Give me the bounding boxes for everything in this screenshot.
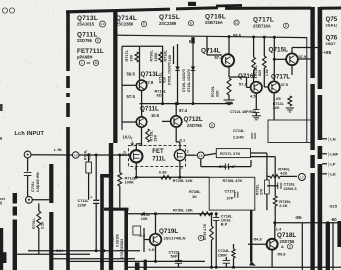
junction gate at C711L — [95, 154, 98, 157]
junction node row at D714L — [192, 102, 195, 105]
svg-text:10.5: 10.5 — [151, 113, 160, 118]
resistor R740L zigzag — [270, 175, 280, 179]
left edge tick mark — [0, 104, 3, 111]
junction bottom right — [232, 266, 235, 269]
svg-text:L0: L0 — [74, 153, 78, 157]
power bus bar A segment — [310, 173, 314, 270]
wire Q718L vertical — [274, 223, 276, 239]
frame left border lower — [66, 127, 70, 270]
junction +85 on bus B — [318, 46, 321, 49]
wire source row — [136, 176, 209, 178]
page corner black blob — [0, 252, 7, 263]
wire diode D716L column — [177, 44, 179, 104]
bottom dark streak — [144, 260, 147, 270]
frame left border dash 2 — [66, 93, 70, 97]
svg-text:D705L 1S2473: D705L 1S2473 — [168, 62, 172, 85]
junction G14 row at heavy bar — [103, 249, 106, 252]
svg-text:0.36: 0.36 — [159, 169, 168, 174]
wire bottom node row — [128, 213, 212, 215]
wire T2 to shield bar — [32, 199, 49, 201]
svg-text:L: L — [81, 61, 83, 65]
wire C711L lower — [95, 203, 97, 250]
capacitor C714L symbol — [252, 133, 255, 139]
svg-text:7: 7 — [131, 137, 133, 141]
diode D714L symbol — [191, 67, 196, 71]
svg-text:R730L 10K: R730L 10K — [173, 208, 193, 213]
wire lower row 3 — [53, 258, 135, 260]
wire right box left edge — [301, 223, 303, 270]
svg-text:2SA1015: 2SA1015 — [77, 22, 95, 27]
wire T1 down — [27, 158, 29, 172]
junction rail at R722L — [252, 36, 255, 39]
fet FET711L left half — [130, 150, 142, 162]
svg-text:C714L: C714L — [233, 129, 245, 133]
junction gate at R713L — [118, 154, 121, 157]
stub LN — [322, 138, 327, 140]
junction crossing bar C — [326, 221, 329, 224]
junction Q715L base at Q717L column — [273, 58, 276, 61]
resistor R726L body — [265, 180, 270, 194]
svg-text:100K: 100K — [125, 180, 134, 185]
svg-text:27P: 27P — [227, 196, 234, 201]
svg-text:Q719L: Q719L — [159, 228, 178, 235]
wire R727L node to output — [251, 156, 275, 158]
junction G14 at C711L — [95, 249, 98, 252]
output stage box — [268, 120, 311, 143]
resistor R717L zigzag — [135, 52, 139, 62]
power bus bar A segment — [310, 84, 314, 150]
junction C716L top — [215, 212, 218, 215]
svg-text:G14: G14 — [56, 248, 64, 253]
wire Q719L base — [144, 239, 150, 241]
ground symbol below R712L — [286, 108, 294, 112]
svg-text:10K: 10K — [141, 217, 148, 221]
svg-text:Lch INPUT: Lch INPUT — [15, 131, 45, 137]
svg-text:37.5: 37.5 — [281, 83, 288, 87]
power bus bar B segment — [318, 146, 323, 159]
svg-text:R736L: R736L — [150, 49, 154, 61]
wire Q712L collector up — [175, 104, 177, 116]
svg-text:6Ω: 6Ω — [157, 93, 162, 98]
junction blob on box top at D714L — [191, 37, 194, 43]
svg-text:220/6.3: 220/6.3 — [284, 186, 298, 191]
stub LD — [322, 173, 327, 175]
power bus bar B segment — [318, 164, 323, 270]
wire Q715L down — [291, 65, 293, 75]
svg-text:D716L 1S2473: D716L 1S2473 — [182, 69, 186, 92]
input terminal jack T2 — [26, 196, 33, 203]
wire mid horizontal node row — [140, 103, 234, 105]
left page remnant circles — [2, 8, 14, 13]
svg-text:2SB716A: 2SB716A — [253, 23, 271, 28]
transistor Q719L — [150, 234, 162, 246]
wire FET right drain up — [179, 142, 181, 150]
transistor Q713L — [136, 80, 146, 90]
transistor Q716L — [251, 82, 262, 93]
resistor R713L zigzag — [119, 155, 121, 173]
wire C726L row — [267, 185, 278, 187]
svg-text:711L: 711L — [152, 157, 166, 163]
svg-text:56P: 56P — [171, 254, 178, 259]
wire C712L to ground — [255, 113, 257, 116]
left shield bar segment — [13, 193, 17, 204]
wire C723L stubs — [178, 253, 180, 260]
svg-text:Q715L: Q715L — [269, 47, 289, 54]
resistor R739L zigzag — [273, 196, 277, 206]
wire C716L column — [215, 214, 217, 218]
junction source row at FET right — [178, 176, 181, 179]
wire Q719L emitter down — [155, 245, 157, 261]
junction rail at R723L — [263, 36, 266, 39]
power bus bar B segment — [318, 7, 323, 89]
svg-text:820: 820 — [258, 70, 262, 76]
wire Q717L emitter — [273, 93, 275, 109]
left edge bar — [0, 228, 3, 270]
capacitor C701L symbol — [24, 173, 32, 176]
right edge bus bar — [337, 221, 341, 247]
capacitor C711L symbol — [93, 200, 99, 203]
svg-text:59.5: 59.5 — [127, 72, 136, 77]
svg-text:57.9: 57.9 — [145, 80, 154, 85]
svg-text:C701L: C701L — [31, 180, 35, 192]
wire R736L column — [162, 46, 164, 103]
heavy bus branch horizontal — [104, 208, 129, 211]
svg-text:-59.8: -59.8 — [277, 252, 287, 257]
svg-text:G15: G15 — [330, 204, 338, 209]
tick mark on rail — [189, 40, 191, 43]
feedback box — [209, 177, 255, 210]
wire T1 to frame — [31, 154, 72, 156]
svg-text:-85-: -85- — [295, 215, 303, 220]
svg-text:or: or — [87, 61, 91, 65]
svg-text:R727L 27K: R727L 27K — [220, 151, 240, 156]
wire inner box top rail — [122, 45, 163, 47]
wire Q715L collector to bus — [298, 58, 313, 60]
resistor R720L zigzag — [227, 78, 231, 95]
svg-text:150P: 150P — [218, 252, 227, 257]
svg-text:0.68/100 WM: 0.68/100 WM — [36, 172, 40, 192]
wire Q713L collector column — [139, 46, 141, 80]
junction node row at R736L — [161, 102, 164, 105]
wire gate line from input — [79, 154, 130, 156]
svg-text:R738L 47K: R738L 47K — [223, 178, 243, 183]
mid shield bar segment — [49, 164, 53, 203]
svg-text:2.2K: 2.2K — [41, 221, 45, 229]
svg-text:C712L 48P/500: C712L 48P/500 — [230, 110, 256, 114]
wire C701L down to T2 — [27, 176, 29, 197]
svg-text:Q713L: Q713L — [141, 71, 160, 78]
svg-text:57.5: 57.5 — [127, 94, 136, 99]
wire emitter join — [273, 109, 275, 120]
svg-text:2.2/40: 2.2/40 — [233, 136, 244, 140]
svg-text:2SD7: 2SD7 — [326, 41, 337, 46]
junction Q712L collector — [175, 102, 178, 105]
bottom heavy bar — [135, 262, 140, 270]
frame left border dash 3 — [66, 103, 70, 117]
heavy bus vertical mid — [109, 143, 113, 270]
junction crossing bus A — [311, 221, 314, 224]
FET envelope dashed box — [129, 146, 186, 167]
svg-text:L6: L6 — [199, 154, 203, 158]
wire diode D714L column — [192, 44, 194, 104]
svg-text:2SC2389: 2SC2389 — [116, 22, 134, 27]
wire lower row 2 — [13, 253, 90, 255]
svg-text:22K: 22K — [153, 134, 157, 141]
frame top border overlap dash — [216, 4, 242, 7]
inner box right edge — [306, 37, 308, 143]
wire Q712L emitter down — [175, 127, 177, 142]
connector L2 — [298, 174, 305, 181]
svg-text:GR: GR — [101, 22, 105, 26]
inner box top edge — [117, 35, 307, 37]
svg-text:Q718L: Q718L — [277, 232, 296, 239]
fet FET711L right half — [174, 150, 185, 161]
svg-text:1K: 1K — [192, 194, 197, 199]
svg-text:22K: 22K — [215, 90, 219, 97]
svg-text:220P: 220P — [78, 203, 87, 207]
wire emitter ground row — [66, 260, 205, 262]
svg-text:2SA1(: 2SA1( — [326, 23, 338, 28]
capacitor C726L symbol — [278, 183, 281, 189]
capacitor C710L symbol — [225, 163, 228, 169]
wire R726L column — [266, 157, 268, 180]
wire Q717L collector up — [273, 37, 275, 81]
junction Q715L wire at bus A — [311, 58, 314, 61]
svg-text:B.P: B.P — [221, 221, 228, 226]
junction Q715L emitter bus — [311, 58, 314, 61]
power bus bar C — [326, 222, 330, 270]
svg-text:57.4: 57.4 — [179, 108, 188, 113]
parts list suffix L or M — [79, 60, 84, 65]
stub LP — [322, 163, 327, 165]
transistor Q712L — [171, 116, 182, 127]
junction source row at FET left — [135, 176, 138, 179]
wire Q719L collector up — [155, 214, 157, 234]
svg-text:-0.5: -0.5 — [139, 233, 147, 238]
svg-text:510: 510 — [162, 77, 166, 83]
stub LNF — [322, 153, 327, 155]
wire Q714L collector up — [228, 37, 230, 55]
wire Q711L emitter down — [141, 127, 143, 146]
arrow FET drain annotation — [131, 141, 134, 145]
svg-text:-1.4: -1.4 — [275, 227, 283, 232]
junction gate wire at R714L — [87, 154, 90, 157]
svg-text:g: g — [0, 136, 2, 140]
resistor R701L zigzag — [38, 203, 40, 211]
frame top border left segment — [66, 8, 170, 14]
wire ground row G14 — [28, 250, 140, 252]
svg-text:·+85: ·+85 — [322, 50, 332, 55]
wire Q718L collector trace — [250, 210, 252, 262]
frame top border right segment — [225, 7, 311, 10]
svg-text:R717L: R717L — [125, 49, 129, 61]
arrow at trace end — [249, 261, 256, 266]
svg-text:42K: 42K — [280, 171, 287, 176]
svg-text:D701 RD5823: D701 RD5823 — [120, 239, 124, 259]
resistor R730L zigzag — [200, 212, 211, 216]
small box R732 — [133, 226, 141, 235]
wire FET right source to L6 — [186, 154, 197, 156]
transistor Q711L — [136, 117, 146, 127]
svg-text:100K: 100K — [154, 52, 158, 61]
frame left border dash 1 — [66, 76, 70, 88]
svg-text:R733 4.7K: R733 4.7K — [203, 223, 207, 240]
capacitor C724L symbol — [223, 260, 230, 263]
svg-text:Q711L: Q711L — [140, 106, 159, 113]
junction crossing bus B — [318, 221, 321, 224]
wire FET left drain up — [135, 144, 137, 150]
wire C724L stubs — [225, 257, 227, 261]
svg-text:2.2K: 2.2K — [279, 203, 287, 208]
wire Q718L base — [248, 243, 267, 245]
wire C710L row — [200, 159, 202, 167]
resistor R715L zigzag — [146, 129, 150, 142]
wire FET drain to Q711 emitter — [136, 143, 141, 145]
wire FET sources down — [135, 163, 137, 178]
resistor R729L zigzag — [161, 175, 171, 179]
wire bottom row — [128, 266, 341, 268]
junction node row at D716L — [176, 102, 179, 105]
junction rail at Q714L — [228, 35, 231, 38]
svg-text:-54.9: -54.9 — [253, 236, 263, 241]
resistor R722L column wire — [253, 37, 255, 57]
wire R714L column — [88, 155, 90, 162]
wire Q712L base stub — [162, 120, 171, 122]
svg-text:1.50: 1.50 — [265, 69, 269, 76]
svg-text:FET: FET — [152, 149, 164, 155]
svg-text:μPA68H: μPA68H — [77, 54, 92, 59]
transistor Q714L — [222, 54, 234, 66]
power bus bar B segment — [318, 95, 323, 140]
junction Q718L top — [273, 221, 276, 224]
svg-text:4.5: 4.5 — [250, 94, 256, 99]
resistor R735L small zigzag bottom right — [232, 249, 235, 258]
resistor R733 zigzag — [210, 226, 214, 240]
junction bottom row at R733 — [210, 212, 213, 215]
svg-text:L2: L2 — [300, 175, 304, 179]
junction emitter row at Q719L — [154, 260, 157, 263]
svg-text:A: A — [281, 244, 284, 249]
ground symbol below C712L — [252, 116, 261, 120]
wire Q711L base stub — [122, 121, 136, 123]
scan speckle texture — [2, 1, 291, 251]
svg-text:59.5: 59.5 — [233, 33, 242, 38]
svg-text:100: 100 — [168, 55, 172, 61]
wire R720L to ground — [228, 95, 230, 100]
svg-text:100: 100 — [130, 55, 134, 61]
svg-text:3: 3 — [181, 166, 183, 170]
svg-text:27K: 27K — [260, 188, 264, 195]
connector L0 on frame — [72, 152, 79, 159]
svg-text:L IN: L IN — [54, 147, 62, 152]
junction bottom at R733 — [210, 266, 213, 269]
heavy bus vertical top — [113, 11, 117, 143]
transistor Q718L — [267, 239, 278, 250]
wire right box right edge — [332, 223, 334, 270]
junction rail at Q717L collector — [273, 36, 276, 39]
wire Q714L emitter down — [228, 66, 230, 77]
wire right crossing row — [275, 222, 341, 224]
capacitor C712L symbol — [253, 110, 259, 113]
junction bottom row at C716L — [215, 266, 218, 269]
power bus bar A segment — [310, 7, 314, 78]
junction bottom row at R731 — [143, 212, 146, 215]
svg-text:2SB716A: 2SB716A — [205, 20, 223, 25]
svg-text:R729L 12K: R729L 12K — [173, 178, 193, 183]
heavy bus jog — [100, 174, 113, 178]
input terminal jack T1 — [24, 151, 31, 158]
resistor R714L box — [86, 162, 92, 173]
capacitor C727L symbol — [235, 192, 238, 198]
wire R718L column — [173, 46, 175, 64]
mid shield bar segment — [49, 212, 53, 270]
wire R727L to output column — [251, 152, 267, 154]
wire inner box left edge — [121, 46, 123, 130]
capacitor C716L symbol — [213, 217, 219, 220]
resistor R723L column — [263, 37, 265, 56]
transistor Q715L — [286, 53, 298, 65]
resistor R736L zigzag — [159, 52, 163, 62]
capacitor C723L symbol — [175, 260, 182, 263]
scan dash above border gap — [188, 2, 196, 6]
adjacent page frame top border — [320, 7, 341, 10]
junction +85 on bus A — [311, 46, 314, 49]
junction bottom row — [154, 212, 157, 215]
svg-text:M: M — [95, 61, 98, 65]
wire Q715L base — [274, 58, 286, 60]
svg-text:57.9: 57.9 — [299, 55, 306, 59]
resistor R712L zigzag — [288, 96, 292, 106]
diode D716L symbol — [175, 67, 180, 71]
svg-text:g: g — [0, 201, 2, 205]
wire Q714L base wire — [206, 36, 208, 55]
wire output column down — [274, 157, 276, 196]
wire Q713L emitter down — [141, 91, 143, 117]
svg-text:2: 2 — [187, 149, 189, 153]
wire Q716L base to Q714L emitter — [247, 86, 251, 88]
resistor R727L 27K box — [216, 149, 250, 158]
wire collector rail drop from frame — [116, 12, 118, 47]
svg-text:+: + — [90, 196, 92, 200]
svg-text:C701L: C701L — [111, 236, 115, 247]
heavy bus vertical lower — [100, 176, 104, 270]
power bus bar A segment — [310, 155, 314, 168]
wire L6 to R727L box — [204, 153, 216, 155]
left shield bar segment — [13, 207, 17, 216]
frame top border middle segment — [176, 6, 218, 10]
svg-text:R701L: R701L — [32, 217, 36, 229]
ground symbol below R720L — [224, 100, 235, 105]
wire Q716L emitter — [255, 93, 257, 109]
svg-text:-60: -60 — [330, 217, 337, 222]
wire Q715L collector to +85 bus — [291, 48, 293, 54]
svg-text:·1.61: ·1.61 — [148, 247, 158, 252]
svg-text:Q714L: Q714L — [201, 48, 221, 55]
svg-text:2SD756: 2SD756 — [77, 38, 93, 43]
svg-text:2SC2389: 2SC2389 — [159, 21, 177, 26]
frame left border upper — [66, 11, 70, 72]
left shield bar segment — [13, 220, 17, 270]
wire C711L upper — [95, 155, 97, 200]
svg-text:D714L 1S2473: D714L 1S2473 — [187, 69, 191, 92]
connector L6 — [197, 152, 204, 159]
svg-text:2SD756: 2SD756 — [187, 123, 203, 128]
heavy bus branch vertical — [124, 208, 128, 270]
wire into R740L — [267, 175, 270, 177]
wire Q713L base stub — [122, 84, 136, 86]
transistor Q717L — [268, 81, 279, 92]
svg-text:2SC1740LN: 2SC1740LN — [164, 235, 186, 240]
